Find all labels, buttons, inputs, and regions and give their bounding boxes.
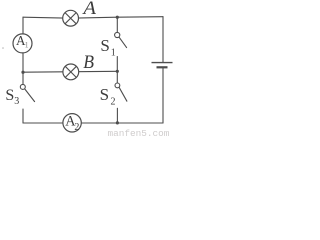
ammeter A1 (13, 33, 32, 53)
svg-text:manfen5.com: manfen5.com (108, 128, 170, 138)
wire S2 branch lower (116, 108, 118, 123)
node junction top (S1 tap) (116, 16, 119, 19)
svg-text:1: 1 (25, 41, 29, 50)
node junction middle left (21, 71, 24, 74)
node junction middle right (116, 70, 119, 73)
switch S3 (20, 84, 34, 101)
wire left lower (22, 109, 24, 123)
wire middle (23, 70, 117, 73)
lamp A (63, 10, 79, 26)
svg-text:2: 2 (111, 96, 116, 107)
wire left upper (22, 17, 24, 84)
svg-text:2: 2 (74, 122, 79, 133)
wire right lower (162, 68, 164, 123)
node junction bottom (S2 tap) (116, 121, 119, 124)
wire S2 branch upper (116, 71, 118, 83)
svg-text:S: S (100, 85, 109, 104)
battery (152, 63, 173, 68)
wire top (23, 17, 163, 19)
speck (scan noise) (2, 47, 4, 49)
wire right upper (162, 17, 164, 62)
svg-text:1: 1 (111, 48, 116, 59)
svg-text:S: S (100, 36, 109, 55)
svg-text:S: S (5, 87, 14, 104)
wire S1 branch lower (116, 57, 118, 72)
wire S1 branch upper (116, 17, 118, 32)
label S2 (100, 85, 116, 107)
svg-text:3: 3 (14, 96, 19, 107)
label S1 (100, 36, 115, 59)
label S3 (5, 87, 19, 107)
ammeter A2 (63, 114, 81, 133)
switch S1 (115, 32, 127, 47)
svg-text:A: A (81, 0, 96, 19)
switch S2 (115, 83, 127, 101)
lamp B (63, 64, 79, 80)
wire bottom (23, 122, 163, 124)
svg-text:B: B (83, 53, 94, 73)
